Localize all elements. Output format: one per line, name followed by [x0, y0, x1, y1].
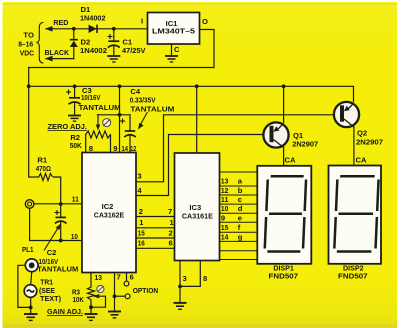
svg-text:O: O [202, 17, 208, 26]
svg-text:R1: R1 [37, 155, 47, 164]
svg-text:10K: 10K [73, 295, 85, 304]
svg-text:15: 15 [221, 223, 229, 232]
svg-text:TANTALUM: TANTALUM [37, 264, 78, 273]
svg-text:2N2907: 2N2907 [356, 137, 383, 146]
svg-text:b: b [238, 186, 243, 195]
svg-text:TANTALUM: TANTALUM [79, 103, 121, 112]
svg-text:15: 15 [138, 229, 146, 238]
svg-text:OPTION: OPTION [133, 286, 159, 295]
svg-text:c: c [238, 195, 242, 204]
svg-text:LM340T–5: LM340T–5 [152, 27, 196, 36]
svg-text:CA3161E: CA3161E [182, 212, 213, 221]
svg-text:TO: TO [23, 31, 34, 40]
svg-text:3: 3 [183, 274, 187, 283]
svg-text:I: I [141, 17, 143, 26]
svg-text:1N4002: 1N4002 [80, 13, 106, 22]
svg-text:470Ω: 470Ω [36, 164, 51, 173]
svg-text:9: 9 [221, 213, 225, 222]
svg-text:13: 13 [95, 273, 103, 282]
svg-text:GAIN ADJ.: GAIN ADJ. [47, 307, 83, 316]
svg-text:g: g [238, 232, 243, 241]
svg-text:e: e [238, 213, 242, 222]
svg-text:d: d [238, 204, 243, 213]
svg-text:ZERO ADJ.: ZERO ADJ. [48, 122, 88, 131]
svg-text:FND507: FND507 [338, 272, 368, 281]
svg-text:12: 12 [130, 144, 136, 153]
svg-text:VDC: VDC [20, 48, 35, 57]
svg-text:TANTALUM: TANTALUM [130, 104, 174, 113]
svg-text:TEXT): TEXT) [40, 294, 61, 303]
svg-text:13: 13 [221, 177, 229, 186]
svg-text:8–16: 8–16 [18, 39, 33, 48]
svg-text:8: 8 [89, 144, 93, 153]
svg-text:14: 14 [221, 232, 229, 241]
svg-text:10: 10 [71, 232, 78, 241]
svg-text:FND507: FND507 [269, 272, 299, 281]
svg-text:16: 16 [138, 239, 145, 248]
svg-text:0.33/35V: 0.33/35V [130, 96, 157, 105]
svg-text:10: 10 [221, 204, 229, 213]
svg-text:2: 2 [139, 207, 143, 216]
svg-text:14: 14 [122, 144, 129, 153]
svg-text:9: 9 [113, 144, 117, 153]
svg-text:12: 12 [221, 186, 229, 195]
svg-text:10/16V: 10/16V [81, 93, 101, 102]
svg-text:7: 7 [168, 207, 172, 216]
svg-text:2N2907: 2N2907 [292, 140, 318, 149]
svg-text:CA: CA [356, 155, 367, 164]
svg-text:RED: RED [53, 18, 68, 27]
svg-text:1N4002: 1N4002 [80, 46, 107, 55]
svg-text:50K: 50K [70, 141, 82, 150]
svg-text:3: 3 [137, 171, 141, 180]
svg-text:11: 11 [221, 195, 229, 204]
svg-text:Q1: Q1 [293, 131, 304, 140]
svg-text:BLACK: BLACK [45, 48, 70, 57]
svg-text:CA: CA [285, 155, 296, 164]
svg-text:Q2: Q2 [357, 128, 367, 137]
svg-text:7: 7 [117, 273, 121, 282]
svg-text:8: 8 [203, 274, 207, 283]
svg-text:CA3162E: CA3162E [94, 210, 125, 219]
svg-text:C2: C2 [47, 248, 57, 257]
svg-text:6: 6 [130, 273, 134, 282]
svg-text:2: 2 [169, 229, 173, 238]
svg-text:PL1: PL1 [22, 245, 34, 254]
svg-text:11: 11 [72, 195, 80, 204]
svg-text:C: C [174, 45, 180, 54]
svg-text:6: 6 [169, 239, 173, 248]
svg-text:47/25V: 47/25V [122, 46, 146, 55]
